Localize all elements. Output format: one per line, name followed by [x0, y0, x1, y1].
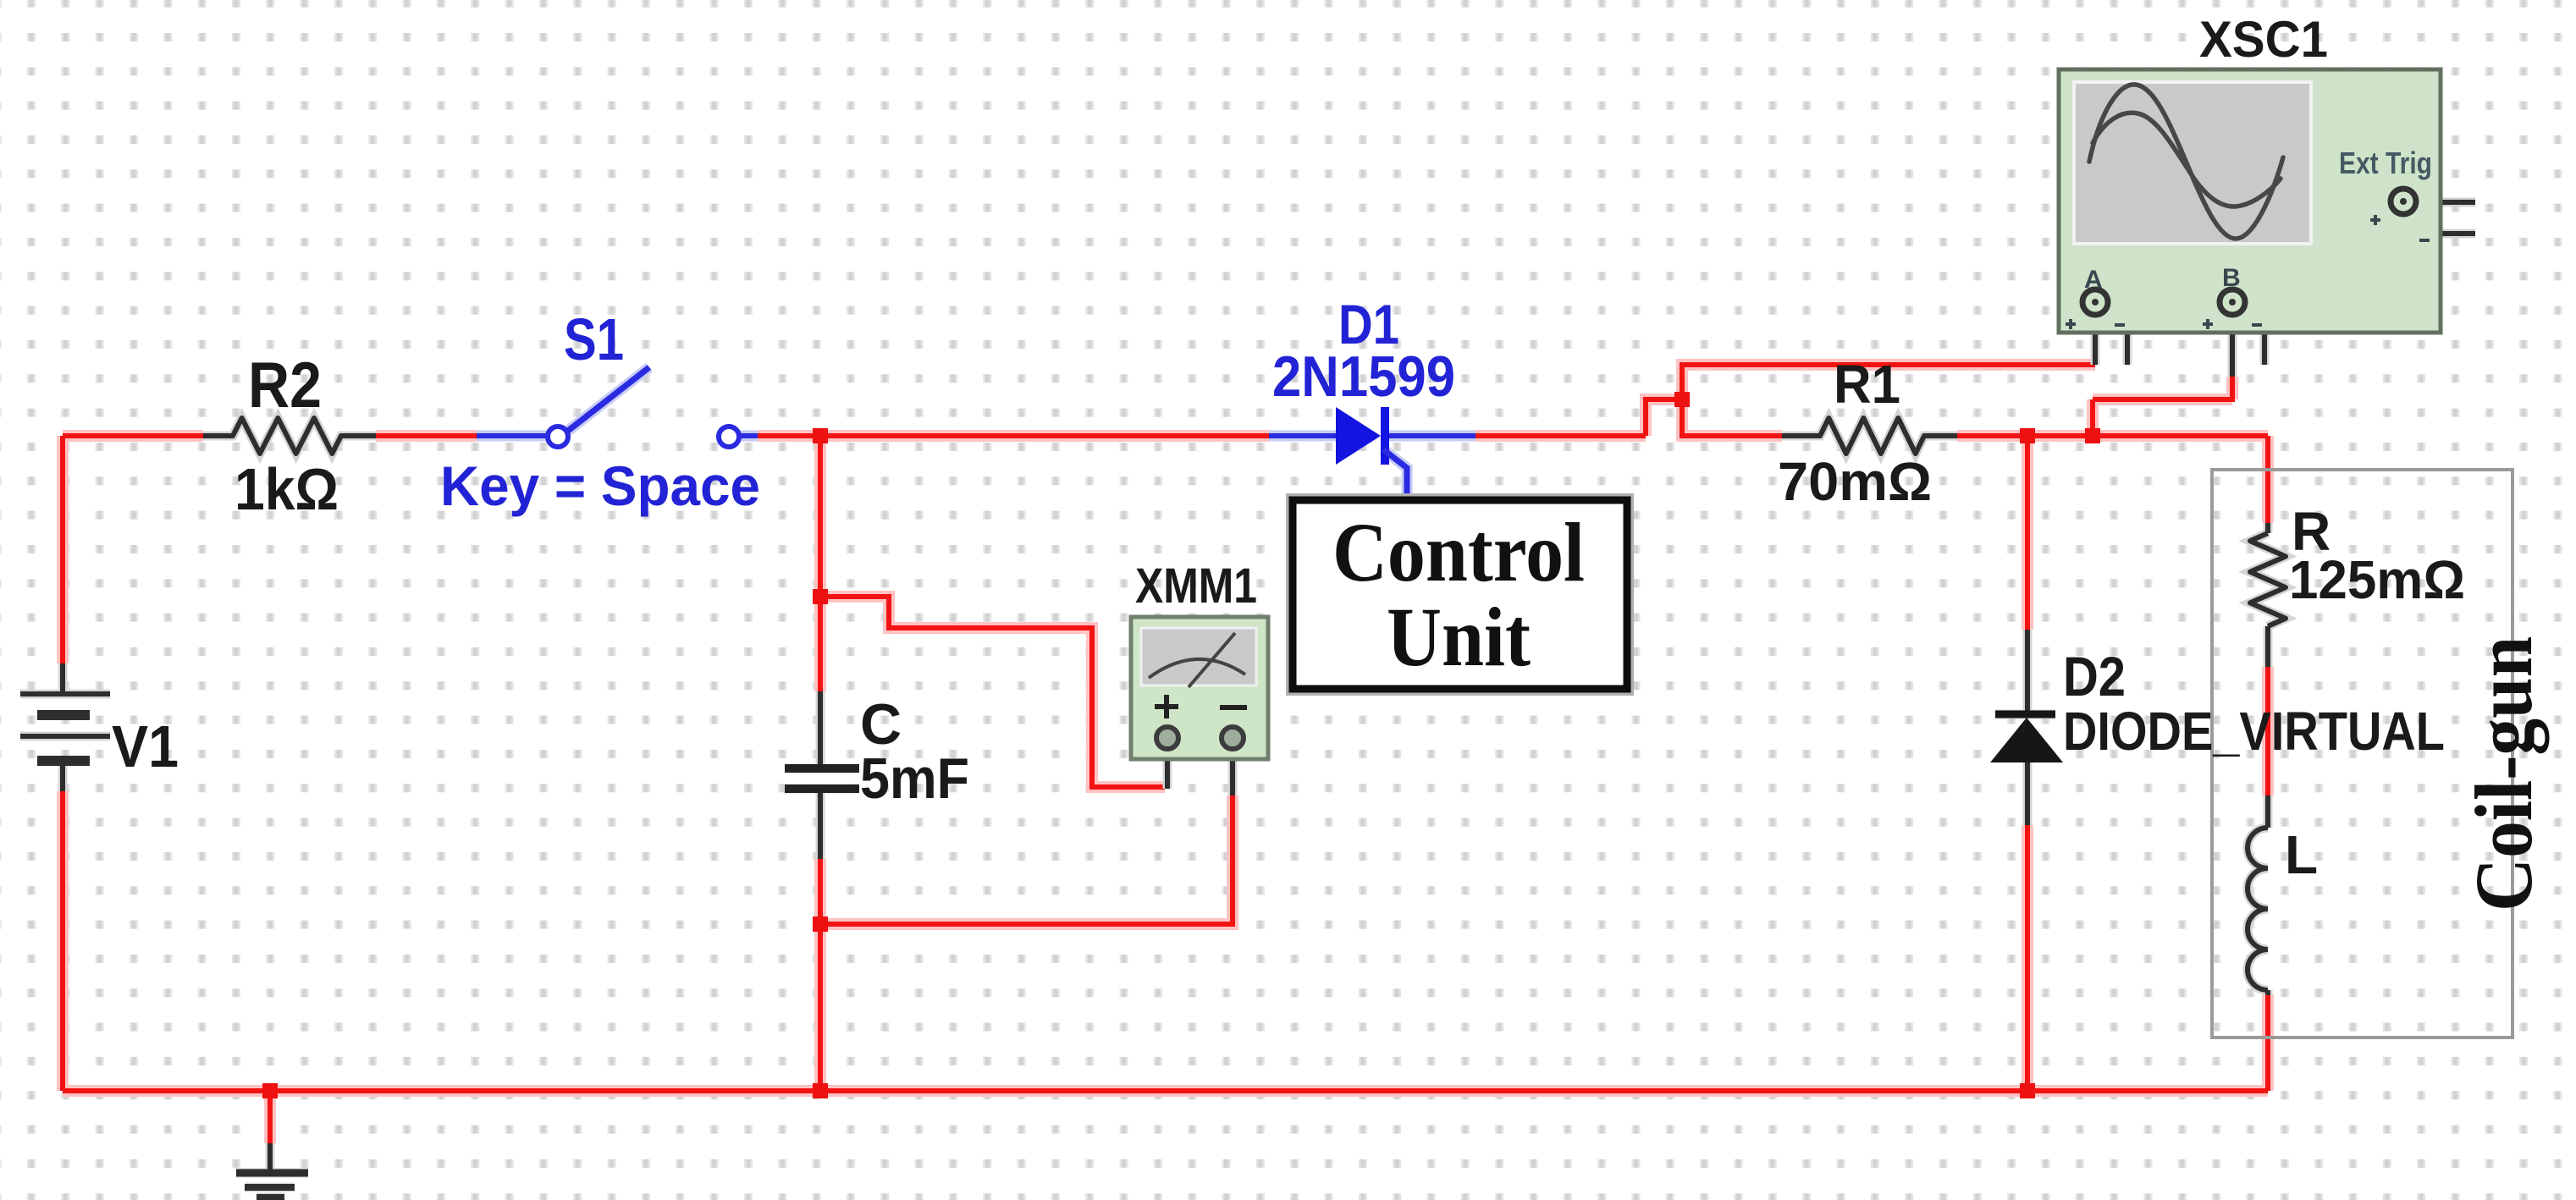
svg-text:Unit: Unit [1387, 590, 1531, 684]
svg-text:2N1599: 2N1599 [1272, 344, 1455, 409]
svg-text:B: B [2222, 264, 2241, 292]
node cap top tee [813, 428, 828, 443]
svg-text:S1: S1 [564, 306, 624, 372]
wire capacitor top [818, 436, 823, 691]
wire scope B minus stub [2232, 302, 2264, 365]
terminal plus [1156, 727, 1178, 749]
wire halos [63, 365, 2268, 1143]
node D2 bottom tee [2020, 1083, 2035, 1098]
svg-text:Key = Space: Key = Space [440, 454, 760, 517]
wire D1 to jog [1476, 399, 1682, 436]
node cap bottom tee [813, 1083, 828, 1098]
black wire stubs [63, 202, 2475, 1170]
red wires [63, 365, 2268, 1143]
svg-text:Ext Trig: Ext Trig [2339, 146, 2432, 180]
svg-text:5mF: 5mF [860, 746, 969, 811]
coil resistor R [2250, 533, 2286, 626]
wire coil L bottom stub [2265, 990, 2270, 995]
wire to XMM1 plus [820, 597, 1165, 787]
node XMM1 feed tee [813, 589, 828, 604]
svg-text:70mΩ: 70mΩ [1778, 451, 1932, 512]
black wire halos [20, 202, 2475, 1197]
svg-text:Coil-gun: Coil-gun [2458, 636, 2549, 911]
inductor L [2248, 828, 2268, 990]
node ground tee [262, 1083, 278, 1098]
resistor R2 [203, 418, 376, 454]
wire D2 top [2025, 436, 2030, 630]
wire D2 bottom [2025, 825, 2030, 1091]
meter needle [1189, 633, 1235, 687]
wire left vertical to battery [60, 436, 65, 663]
polarity ticks [2066, 215, 2430, 329]
scope trace big [2089, 85, 2283, 239]
node jog tee [1674, 392, 1690, 407]
wire R1 to coil branch [1957, 436, 2268, 523]
scope trace small [2093, 113, 2281, 206]
wire scope A minus stub [2095, 302, 2127, 365]
wire scope A stub [2093, 302, 2098, 365]
wire jog to R1 [1682, 399, 1782, 436]
terminal minus [1222, 727, 1244, 749]
wire coil R top stub [2265, 523, 2270, 533]
svg-text:125mΩ: 125mΩ [2289, 549, 2465, 610]
switch S1 [477, 367, 758, 436]
terminal B [2220, 289, 2245, 315]
svg-text:XSC1: XSC1 [2199, 11, 2328, 68]
thyristor D1 2N1599 [1269, 407, 1476, 501]
svg-text:XMM1: XMM1 [1135, 559, 1257, 614]
node XMM1 return tee [813, 917, 828, 932]
wire ext trig stub 1 [2413, 200, 2475, 205]
svg-text:L: L [2285, 824, 2318, 885]
control unit box [1288, 495, 1632, 694]
wire scope B down [2093, 377, 2232, 436]
wire cap bottom stub [818, 792, 823, 859]
node D2 top tee [2020, 428, 2035, 443]
wire ground stub [268, 1091, 273, 1143]
svg-text:1kΩ: 1kΩ [234, 456, 339, 522]
wire D2 anode stub [2025, 630, 2030, 711]
svg-text:Control: Control [1332, 505, 1585, 599]
wire coil bottom [2265, 994, 2270, 1091]
capacitor C [785, 768, 859, 789]
wire to scope A [1682, 365, 2095, 399]
coil-gun box [2212, 470, 2513, 1038]
wire R2 to switch [376, 433, 477, 438]
wire XMM1 plus stub [1165, 749, 1170, 789]
gate wire [1383, 449, 1407, 501]
wire cap top stub [818, 691, 823, 765]
wire ext trig stub 2 [2405, 215, 2475, 234]
wire D2 cathode stub [2025, 762, 2030, 825]
wire scope B stub [2230, 302, 2235, 377]
svg-text:V1: V1 [112, 713, 179, 779]
svg-text:DIODE_VIRTUAL: DIODE_VIRTUAL [2063, 701, 2445, 762]
terminal Ext [2391, 189, 2416, 214]
svg-text:R1: R1 [1834, 354, 1900, 415]
resistor R1 [1782, 418, 1957, 454]
svg-text:R2: R2 [248, 350, 322, 421]
multimeter XMM1 [1131, 617, 1268, 759]
wire XMM1 minus stub [1230, 749, 1235, 795]
wire battery bottom stub [60, 763, 65, 791]
wire battery top stub [60, 663, 65, 692]
wire coil mid [2265, 667, 2270, 795]
plus mark [1155, 695, 1178, 718]
battery V1 [20, 694, 110, 761]
wire XMM1 minus return [820, 795, 1233, 924]
wire coil R bottom stub [2265, 626, 2270, 667]
switch lever [568, 367, 649, 431]
wire bottom bus [63, 1088, 2268, 1093]
wire switch to D1 [758, 433, 1269, 438]
minus mark [1220, 705, 1247, 710]
svg-text:D2: D2 [2063, 645, 2126, 707]
meter arc [1149, 659, 1245, 678]
svg-text:A: A [2084, 266, 2103, 294]
wire battery to bus [60, 791, 65, 1091]
oscilloscope XSC1 [2059, 69, 2441, 333]
wire main line left [63, 433, 203, 438]
terminal A [2082, 289, 2108, 315]
wire coil L top stub [2265, 795, 2270, 828]
ground [236, 1173, 308, 1197]
diode D2 [1990, 714, 2063, 762]
wire capacitor bottom [818, 859, 823, 1091]
wire ground black stub [268, 1143, 273, 1170]
node scope B tee [2085, 428, 2100, 443]
